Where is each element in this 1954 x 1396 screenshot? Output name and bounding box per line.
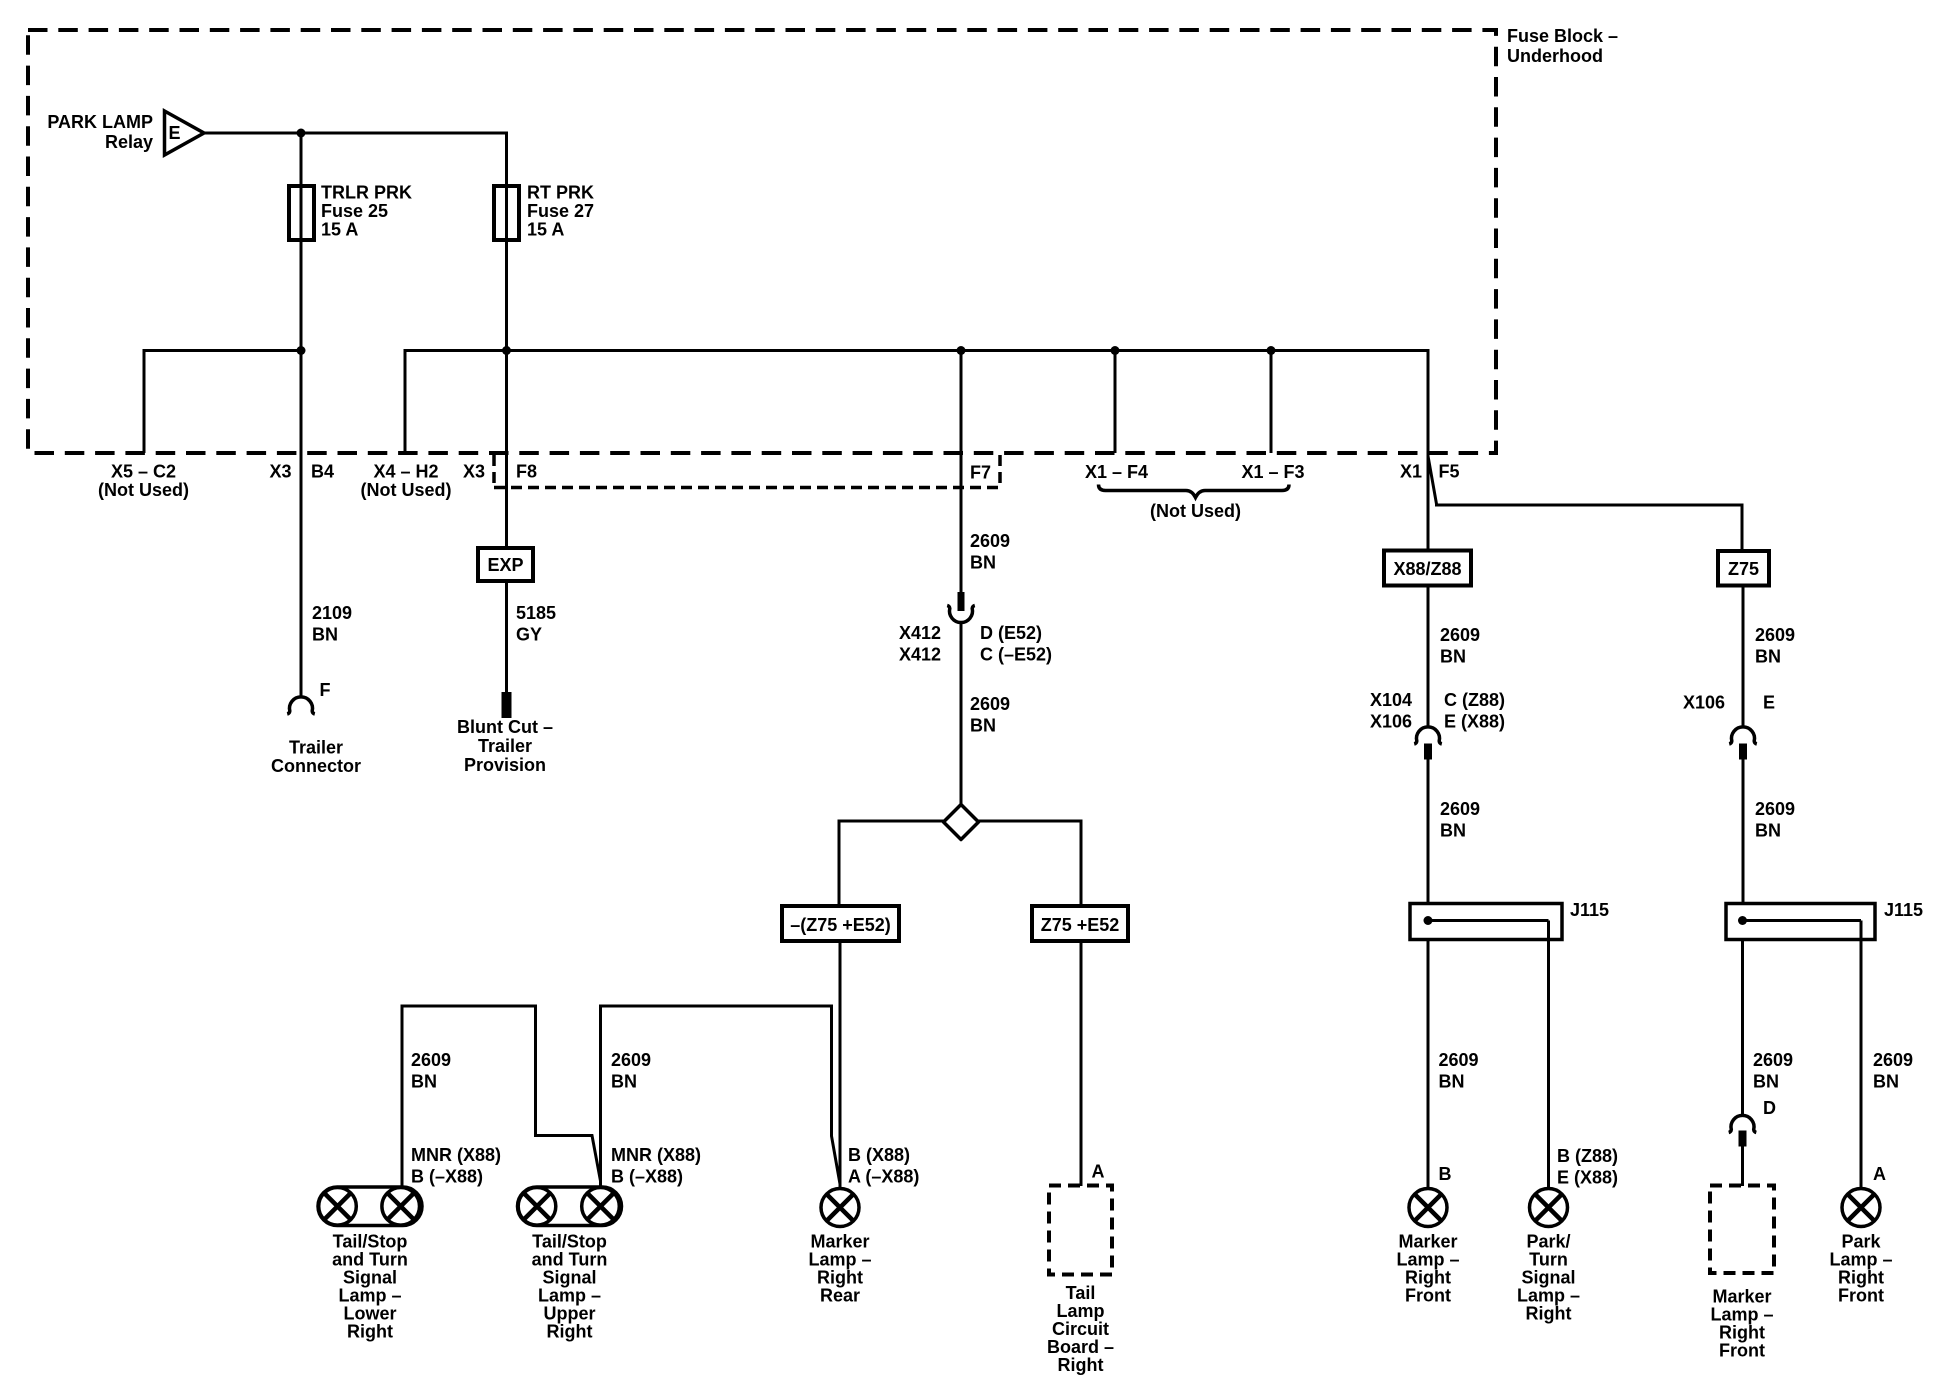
wire X1 F5 diagonal branch	[1428, 456, 1742, 551]
svg-text:C (–E52): C (–E52)	[980, 645, 1052, 665]
svg-text:–(Z75 +E52): –(Z75 +E52)	[790, 915, 891, 935]
label marker lamp right rear	[808, 1232, 871, 1306]
svg-text:(Not Used): (Not Used)	[361, 480, 452, 500]
label park lamp right front	[1829, 1232, 1892, 1306]
svg-text:Tail/Stop: Tail/Stop	[333, 1232, 408, 1252]
node label X5-C2 (Not Used)	[98, 462, 189, 501]
splice pack J115 right	[1726, 904, 1875, 940]
svg-text:Lamp –: Lamp –	[1396, 1250, 1459, 1270]
svg-text:BN: BN	[1755, 821, 1781, 841]
svg-text:F7: F7	[970, 463, 991, 483]
svg-text:X1: X1	[1400, 462, 1422, 482]
wire label 2609 BN chain1	[1439, 1050, 1479, 1092]
svg-text:BN: BN	[1755, 647, 1781, 667]
lamp park right front	[1842, 1189, 1880, 1227]
svg-text:X106: X106	[1683, 693, 1725, 713]
wire connector to J115 right	[1742, 760, 1745, 904]
connector half circle trailer	[287, 697, 315, 714]
svg-text:Blunt Cut –: Blunt Cut –	[457, 717, 553, 737]
svg-text:Circuit: Circuit	[1052, 1319, 1109, 1339]
lamp park/turn signal right	[1530, 1189, 1568, 1227]
fuse TRLR PRK Fuse 25	[289, 186, 314, 240]
wire J115 right exit down to park lamp	[1860, 921, 1863, 1190]
label marker lamp right front	[1396, 1232, 1459, 1306]
svg-text:X88/Z88: X88/Z88	[1393, 559, 1461, 579]
brace not used group	[1099, 485, 1290, 498]
wire Z75+E52 to circuit board	[1080, 941, 1083, 1186]
svg-text:Trailer: Trailer	[289, 738, 343, 758]
pin labels D (E52) C (-E52)	[980, 623, 1052, 665]
wire label 2609 BN	[1753, 1050, 1793, 1092]
svg-text:B: B	[1439, 1164, 1452, 1184]
blunt cut bar	[502, 692, 512, 718]
box Z75 +E52	[1032, 906, 1128, 941]
svg-text:X412: X412	[899, 623, 941, 643]
tail lamp circuit board dashed box	[1049, 1186, 1112, 1275]
svg-text:Lamp –: Lamp –	[538, 1286, 601, 1306]
svg-text:X1 – F3: X1 – F3	[1241, 462, 1304, 482]
svg-text:2609: 2609	[1873, 1050, 1913, 1070]
svg-text:Tail/Stop: Tail/Stop	[532, 1232, 607, 1252]
connector X104/X106 pin bar	[1424, 744, 1432, 760]
svg-text:Lamp: Lamp	[1056, 1301, 1104, 1321]
svg-text:Marker: Marker	[1712, 1287, 1771, 1307]
wire fuse25 to bus	[300, 240, 303, 351]
svg-text:F5: F5	[1439, 462, 1460, 482]
svg-text:Fuse 25: Fuse 25	[321, 201, 388, 221]
value label Fuse 25	[321, 183, 412, 240]
wire label 2609 BN right	[1873, 1050, 1913, 1092]
svg-text:Signal: Signal	[542, 1268, 596, 1288]
svg-text:Lamp –: Lamp –	[1517, 1286, 1580, 1306]
svg-text:Right: Right	[547, 1322, 593, 1342]
node junction at relay wire and fuse25 branch	[297, 129, 306, 138]
svg-text:Lamp –: Lamp –	[1710, 1305, 1773, 1325]
wire Z75 down to connector	[1742, 586, 1745, 729]
connector strip fine dashed outline	[494, 455, 1000, 488]
wire branch rail to lower lamp	[402, 1006, 601, 1187]
svg-text:E (X88): E (X88)	[1557, 1168, 1618, 1188]
svg-text:GY: GY	[516, 625, 542, 645]
svg-text:Right: Right	[1405, 1268, 1451, 1288]
wire fuse25 branch down	[300, 133, 303, 186]
wire F8 chain down	[505, 351, 508, 549]
svg-text:B4: B4	[311, 462, 334, 482]
pin labels X104 X106	[1370, 690, 1412, 732]
pin label B (Z88) E (X88)	[1557, 1146, 1618, 1188]
svg-text:5185: 5185	[516, 603, 556, 623]
pin labels C (Z88) E (X88)	[1444, 690, 1505, 732]
svg-text:Z75 +E52: Z75 +E52	[1041, 915, 1120, 935]
value label Fuse 27	[527, 183, 594, 240]
svg-text:Lamp –: Lamp –	[1829, 1250, 1892, 1270]
fuse RT PRK Fuse 27	[494, 186, 519, 240]
svg-text:Signal: Signal	[1521, 1268, 1575, 1288]
lamp tail/stop upper right capsule	[518, 1187, 622, 1226]
svg-text:2609: 2609	[1440, 799, 1480, 819]
svg-text:B (Z88): B (Z88)	[1557, 1146, 1618, 1166]
wire F7 chain down	[960, 351, 963, 594]
wire J115 right exit down	[1547, 921, 1550, 1190]
connector X106 cup	[1729, 727, 1757, 744]
svg-text:BN: BN	[1439, 1072, 1465, 1092]
svg-text:X4 – H2: X4 – H2	[373, 462, 438, 482]
wire label 2109 BN	[312, 603, 352, 645]
label tail/stop upper right	[532, 1232, 608, 1342]
label Blunt Cut Trailer Provision	[457, 717, 553, 775]
wire label 2609 BN left	[411, 1050, 451, 1092]
pin labels X412 X412	[899, 623, 941, 665]
svg-text:B (–X88): B (–X88)	[611, 1167, 683, 1187]
svg-text:X104: X104	[1370, 690, 1412, 710]
lamp tail/stop lower right capsule	[318, 1187, 422, 1226]
svg-text:Fuse Block –: Fuse Block –	[1507, 26, 1618, 46]
svg-text:Marker: Marker	[810, 1232, 869, 1252]
svg-text:J115: J115	[1884, 900, 1923, 920]
box EXP	[478, 548, 533, 581]
lamp marker right rear	[821, 1189, 859, 1227]
svg-text:J115: J115	[1570, 900, 1609, 920]
svg-text:2609: 2609	[1439, 1050, 1479, 1070]
svg-text:E: E	[169, 123, 181, 143]
box Z75	[1718, 551, 1769, 586]
svg-text:2609: 2609	[611, 1050, 651, 1070]
fuse block underhood dashed box	[28, 30, 1496, 453]
svg-text:BN: BN	[970, 716, 996, 736]
wire label 2609 BN	[1440, 799, 1480, 841]
svg-text:BN: BN	[312, 625, 338, 645]
relay E triangle	[165, 111, 205, 155]
svg-text:Park/: Park/	[1526, 1232, 1570, 1252]
svg-text:(Not Used): (Not Used)	[98, 480, 189, 500]
svg-text:BN: BN	[970, 553, 996, 573]
svg-text:MNR (X88): MNR (X88)	[411, 1145, 501, 1165]
svg-text:Front: Front	[1719, 1341, 1765, 1361]
pin label MNR (X88) B (-X88) lamp1	[411, 1145, 501, 1187]
connector D cup	[1729, 1115, 1757, 1132]
svg-text:Board –: Board –	[1047, 1337, 1114, 1357]
svg-text:Turn: Turn	[1529, 1250, 1568, 1270]
svg-text:Connector: Connector	[271, 756, 361, 776]
svg-text:Marker: Marker	[1398, 1232, 1457, 1252]
wire label 2609 BN	[970, 694, 1010, 736]
wire label 5185 GY	[516, 603, 556, 645]
wire label 2609 BN	[1755, 625, 1795, 667]
svg-text:Relay: Relay	[105, 132, 153, 152]
svg-text:2609: 2609	[411, 1050, 451, 1070]
node junction fuse25 wire at left bus	[297, 346, 306, 355]
wire splice left branch	[839, 821, 944, 906]
box X88/Z88	[1384, 551, 1471, 586]
svg-text:Tail: Tail	[1066, 1283, 1096, 1303]
wire marker lamp right rear feed	[839, 941, 842, 1189]
relay PARK LAMP label	[47, 112, 153, 152]
svg-text:D (E52): D (E52)	[980, 623, 1042, 643]
svg-text:BN: BN	[1873, 1072, 1899, 1092]
pin label X3 B4	[269, 462, 334, 482]
svg-text:2609: 2609	[970, 531, 1010, 551]
wire branch rail to tail lamps	[601, 1006, 841, 1187]
svg-text:Z75: Z75	[1728, 559, 1759, 579]
svg-text:X1 – F4: X1 – F4	[1085, 462, 1148, 482]
svg-text:E (X88): E (X88)	[1444, 712, 1505, 732]
wire stub X1-F4	[1114, 351, 1117, 454]
svg-text:TRLR PRK: TRLR PRK	[321, 183, 412, 203]
node junction fuse27 wire at right bus	[502, 346, 511, 355]
svg-text:Right: Right	[817, 1268, 863, 1288]
svg-text:Lamp –: Lamp –	[808, 1250, 871, 1270]
svg-text:Right: Right	[1058, 1355, 1104, 1375]
svg-text:Upper: Upper	[543, 1304, 595, 1324]
svg-text:Fuse 27: Fuse 27	[527, 201, 594, 221]
label marker lamp right front dashed	[1710, 1287, 1773, 1361]
connector D pin bar	[1739, 1131, 1747, 1147]
svg-text:2609: 2609	[1755, 625, 1795, 645]
svg-text:X3: X3	[269, 462, 291, 482]
splice diamond	[944, 805, 979, 840]
svg-text:Front: Front	[1838, 1286, 1884, 1306]
wire stub X1-F3	[1270, 351, 1273, 454]
svg-text:15 A: 15 A	[321, 220, 358, 240]
svg-text:X5 – C2: X5 – C2	[111, 462, 176, 482]
svg-text:2609: 2609	[1753, 1050, 1793, 1070]
svg-text:Underhood: Underhood	[1507, 46, 1603, 66]
wire X88/Z88 down to connector	[1427, 586, 1430, 729]
wire EXP to blunt cut	[505, 581, 508, 693]
wire X412 to splice	[960, 622, 963, 805]
svg-text:2609: 2609	[970, 694, 1010, 714]
svg-text:Front: Front	[1405, 1286, 1451, 1306]
wire relay output horizontal	[204, 132, 507, 135]
svg-text:Trailer: Trailer	[478, 736, 532, 756]
wire X1 F5 main down	[1427, 456, 1430, 551]
svg-text:Right: Right	[1526, 1304, 1572, 1324]
svg-text:Provision: Provision	[464, 755, 546, 775]
wire label 2609 BN mid	[611, 1050, 651, 1092]
pin label X3 F8	[463, 462, 537, 482]
wire D connector to dashed box	[1741, 1147, 1744, 1187]
svg-text:B (–X88): B (–X88)	[411, 1167, 483, 1187]
wire trailer connector chain	[300, 351, 303, 698]
connector X104/X106 cup	[1414, 727, 1442, 744]
wire fuse27 to bus	[505, 240, 508, 351]
svg-text:Lamp –: Lamp –	[338, 1286, 401, 1306]
svg-text:PARK LAMP: PARK LAMP	[47, 112, 153, 132]
svg-text:and Turn: and Turn	[332, 1250, 408, 1270]
svg-text:Right: Right	[347, 1322, 393, 1342]
svg-text:15 A: 15 A	[527, 220, 564, 240]
label park/turn signal lamp right	[1517, 1232, 1580, 1324]
connector X412 pin bar	[958, 592, 965, 611]
label Trailer Connector	[271, 738, 361, 777]
label Fuse Block - Underhood	[1507, 26, 1618, 66]
marker lamp right front dashed box	[1710, 1186, 1774, 1274]
svg-text:A: A	[1873, 1164, 1886, 1184]
connector X106 pin bar	[1739, 744, 1747, 760]
svg-text:A: A	[1092, 1162, 1105, 1182]
wire label 2609 BN	[1440, 625, 1480, 667]
svg-text:(Not Used): (Not Used)	[1150, 501, 1241, 521]
svg-text:F: F	[320, 680, 331, 700]
svg-text:Right: Right	[1838, 1268, 1884, 1288]
svg-text:BN: BN	[1753, 1072, 1779, 1092]
svg-text:Rear: Rear	[820, 1286, 860, 1306]
svg-text:2609: 2609	[1440, 625, 1480, 645]
svg-text:BN: BN	[1440, 821, 1466, 841]
wire label 2609 BN	[970, 531, 1010, 573]
svg-text:BN: BN	[611, 1072, 637, 1092]
connector X412 cup	[947, 605, 975, 622]
box -(Z75 +E52)	[782, 906, 899, 941]
wire left bus	[144, 351, 301, 454]
wire J115 left exit down to D connector	[1741, 940, 1744, 1117]
svg-text:A (–X88): A (–X88)	[848, 1167, 919, 1187]
svg-text:X3: X3	[463, 462, 485, 482]
wire J115 left exit down	[1427, 940, 1430, 1190]
label tail lamp circuit board right	[1047, 1283, 1114, 1375]
svg-text:Lower: Lower	[343, 1304, 396, 1324]
wire fuse27 branch down	[505, 132, 508, 187]
svg-text:BN: BN	[1440, 647, 1466, 667]
wire label 2609 BN	[1755, 799, 1795, 841]
svg-text:E: E	[1763, 693, 1775, 713]
pin label B (X88) A (-X88) marker	[848, 1145, 919, 1187]
svg-text:EXP: EXP	[487, 555, 523, 575]
svg-text:X412: X412	[899, 645, 941, 665]
svg-text:Right: Right	[1719, 1323, 1765, 1343]
svg-text:B (X88): B (X88)	[848, 1145, 910, 1165]
label tail/stop lower right	[332, 1232, 408, 1342]
wire right bus	[405, 351, 1428, 457]
svg-text:F8: F8	[516, 462, 537, 482]
svg-text:D: D	[1763, 1098, 1776, 1118]
svg-text:2109: 2109	[312, 603, 352, 623]
wire connector to J115 left	[1427, 760, 1430, 904]
pin label X1 F5	[1400, 462, 1460, 482]
lamp marker right front	[1409, 1189, 1447, 1227]
svg-text:Signal: Signal	[343, 1268, 397, 1288]
svg-text:MNR (X88): MNR (X88)	[611, 1145, 701, 1165]
svg-text:RT PRK: RT PRK	[527, 183, 594, 203]
node junction F7 wire at right bus	[957, 346, 966, 355]
svg-text:2609: 2609	[1755, 799, 1795, 819]
pin label MNR (X88) B (-X88) lamp2	[611, 1145, 701, 1187]
wire splice right branch	[979, 821, 1082, 906]
svg-text:Park: Park	[1841, 1232, 1881, 1252]
svg-text:and Turn: and Turn	[532, 1250, 608, 1270]
svg-text:X106: X106	[1370, 712, 1412, 732]
node label X4-H2 (Not Used)	[361, 462, 452, 501]
svg-text:C (Z88): C (Z88)	[1444, 690, 1505, 710]
splice pack J115 left	[1410, 904, 1562, 940]
svg-text:BN: BN	[411, 1072, 437, 1092]
